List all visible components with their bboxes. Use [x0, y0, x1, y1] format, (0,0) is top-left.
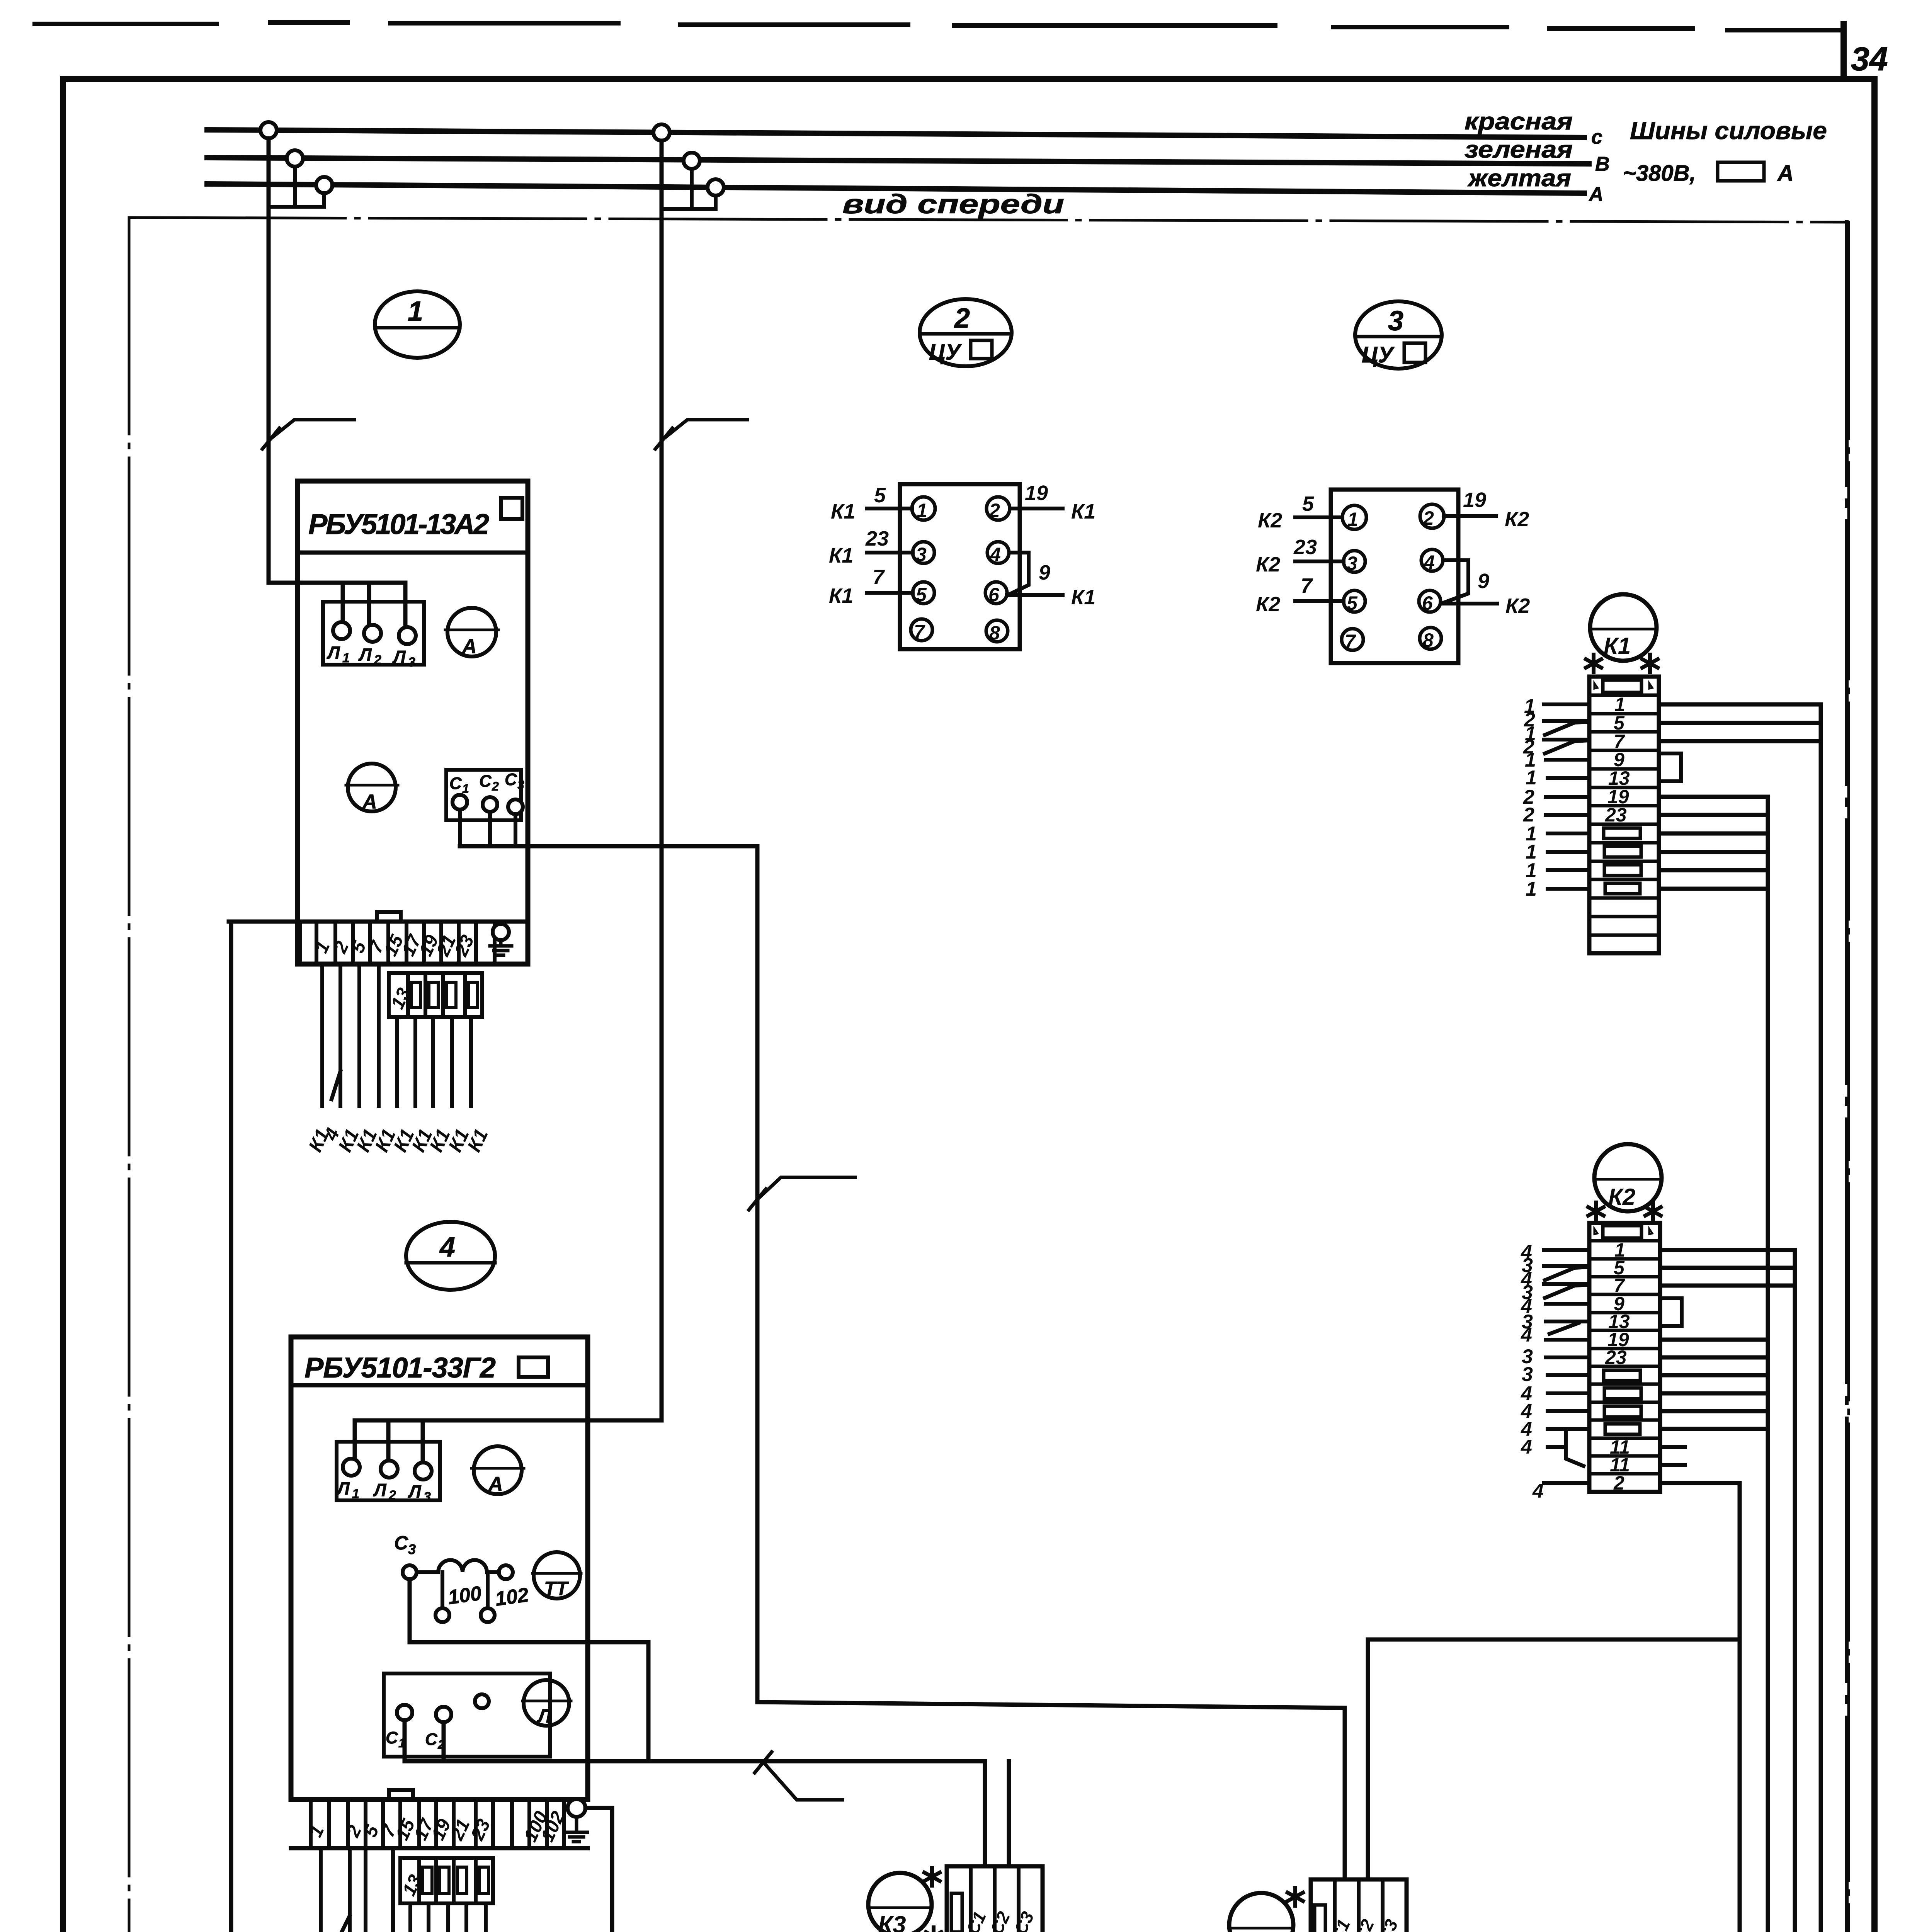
unit U1 РБУ5101-13А2 body	[298, 481, 528, 964]
X3 pin 4	[1421, 549, 1443, 571]
svg-text:1: 1	[408, 296, 423, 327]
svg-text:4: 4	[1424, 551, 1435, 573]
K1 left wires	[1544, 704, 1589, 889]
X3 wire from pin2	[1444, 514, 1496, 518]
U2 terminal C2	[436, 1707, 451, 1722]
U2 indicator rect	[519, 1357, 548, 1377]
svg-text:А: А	[362, 791, 377, 813]
U1 strip tab	[377, 912, 401, 922]
X2 pin 5	[913, 582, 934, 604]
K3 asterisk bottom	[926, 1927, 941, 1932]
U1 indicator square	[501, 498, 522, 519]
bus tap 1: node on bus C	[260, 122, 277, 138]
svg-text:4: 4	[1521, 1324, 1532, 1346]
svg-text:23: 23	[1605, 804, 1627, 826]
svg-text:А: А	[1777, 161, 1794, 186]
K2 asterisk right	[1645, 1202, 1661, 1220]
bus tap 2 bundle wires	[662, 169, 716, 209]
U2 strip tab	[389, 1790, 413, 1799]
svg-text:К3: К3	[878, 1912, 906, 1932]
U1 terminal L3	[399, 627, 416, 644]
svg-text:Л: Л	[537, 1705, 552, 1727]
K1 header plug	[1603, 680, 1641, 692]
svg-text:2: 2	[492, 779, 499, 793]
svg-text:3: 3	[517, 778, 524, 792]
K2 left wire labels	[1521, 1241, 1544, 1502]
boundary long-dash line right	[1845, 222, 1849, 1932]
svg-text:К1: К1	[1604, 633, 1631, 659]
K1 link bracket rows 9-13	[1659, 753, 1681, 781]
U2 terminal strip cells	[311, 1799, 564, 1848]
U1 second terminal row	[389, 973, 482, 1017]
power bus A (yellow phase)	[207, 184, 1584, 193]
svg-text:К1: К1	[1071, 500, 1095, 523]
svg-text:5: 5	[1347, 592, 1358, 614]
svg-text:С: С	[479, 772, 492, 791]
bus tap 1: node on bus B	[287, 150, 303, 167]
svg-text:7: 7	[914, 621, 925, 643]
U2 ground symbol	[566, 1817, 587, 1842]
U2 TT circle	[534, 1552, 580, 1599]
svg-text:c: c	[1591, 126, 1602, 148]
X2 pin 7	[911, 619, 932, 641]
svg-text:К2: К2	[1256, 593, 1280, 616]
U2 terminal strip top line	[291, 1798, 588, 1802]
svg-text:К1: К1	[1071, 586, 1095, 609]
U1 C-terminal box	[446, 770, 521, 820]
svg-text:К1: К1	[829, 544, 853, 567]
svg-text:7: 7	[1301, 574, 1313, 597]
demolition mark on drop 1	[262, 420, 354, 449]
U2 CT primary with coil	[417, 1570, 499, 1574]
svg-text:4: 4	[439, 1232, 455, 1263]
U1 meter A2	[348, 764, 396, 811]
K1 left wire labels	[1523, 695, 1537, 900]
svg-text:К2: К2	[1256, 553, 1280, 576]
svg-text:2: 2	[1423, 507, 1434, 529]
svg-text:А: А	[461, 635, 477, 658]
U2 lamp circle	[524, 1680, 569, 1726]
power bus B (green phase)	[207, 158, 1589, 164]
X3 pin 1	[1342, 505, 1366, 529]
svg-text:3: 3	[408, 655, 415, 670]
svg-text:К1: К1	[831, 500, 855, 523]
U2 ammeter	[474, 1446, 522, 1494]
svg-text:34: 34	[1851, 41, 1888, 78]
U1 ground symbol	[490, 940, 512, 955]
svg-text:зеленая: зеленая	[1465, 136, 1573, 163]
svg-text:С: С	[394, 1532, 408, 1554]
X3 wire from pin6	[1441, 602, 1497, 605]
U2 strip row labels	[305, 1808, 569, 1845]
U2 strip bottom line	[291, 1846, 588, 1850]
svg-text:2: 2	[954, 303, 970, 334]
page number divider line top right	[1840, 24, 1847, 79]
U2 L-terminal box	[337, 1442, 440, 1500]
inner panel boundary (chain line)	[129, 218, 1849, 1932]
svg-text:1: 1	[352, 1486, 359, 1501]
U1 terminal L1	[333, 622, 350, 639]
wire: U2 ground to zero bus	[585, 1808, 612, 1932]
K2 left wires	[1544, 1250, 1589, 1483]
terminal block K1 callout circle	[1590, 594, 1657, 661]
wire: U1 left feeder to zero bus	[231, 922, 298, 1932]
callout circle 3	[1355, 301, 1442, 369]
U2 outgoing wires below strip	[321, 1848, 486, 1932]
X2 wire to pin1	[867, 507, 912, 510]
bus tap 2: node on bus A	[708, 179, 724, 196]
svg-text:6: 6	[988, 584, 1000, 605]
U1 terminal C1	[452, 795, 467, 810]
svg-text:6: 6	[1422, 592, 1433, 614]
ampere box symbol	[1718, 162, 1764, 181]
wire: K1 lower bundle to relay panel	[1573, 797, 1768, 1932]
U2 jumper plugs row2	[423, 1867, 432, 1893]
U1 outgoing wires below strip	[322, 964, 471, 1106]
K1 asterisk right	[1642, 655, 1658, 672]
U2 second terminal row	[400, 1858, 493, 1903]
demolition mark on U1-C wire	[749, 1177, 855, 1210]
U1 ground circle	[493, 924, 509, 940]
U2 spare hole	[475, 1694, 489, 1708]
svg-text:Л: Л	[408, 1481, 422, 1502]
svg-text:3: 3	[1347, 553, 1357, 574]
K2 link bracket rows 9-13	[1660, 1298, 1682, 1326]
K4 asterisk top	[1288, 1888, 1303, 1906]
U2 C1C2 box	[384, 1673, 550, 1757]
svg-text:Л: Л	[336, 1478, 350, 1498]
wire: K2 lower bundle joining relay-panel feeder	[1660, 1340, 1768, 1429]
U2 title divider	[291, 1383, 588, 1388]
U2 terminal L1	[343, 1459, 360, 1476]
power bus C (red phase)	[207, 130, 1584, 138]
svg-text:С: С	[449, 774, 462, 793]
svg-text:Л: Л	[358, 645, 372, 665]
svg-text:2: 2	[989, 500, 1000, 521]
svg-text:А: А	[1588, 183, 1604, 206]
K4 cell labels	[1326, 1916, 1402, 1932]
svg-text:ЦУ: ЦУ	[1362, 342, 1395, 367]
X3 pin 8	[1420, 628, 1441, 649]
K1 row labels	[1605, 694, 1630, 826]
svg-text:7: 7	[873, 566, 885, 589]
K3 asterisk top	[924, 1868, 940, 1886]
svg-text:5: 5	[874, 484, 886, 507]
X3 pin 7	[1342, 629, 1363, 650]
K2 terminal strip body	[1589, 1223, 1660, 1492]
svg-text:К2: К2	[1258, 509, 1282, 532]
svg-text:ЦУ: ЦУ	[929, 340, 962, 365]
svg-text:красная: красная	[1465, 108, 1573, 135]
X3 wire to pin5	[1295, 599, 1344, 603]
svg-text:3: 3	[916, 544, 927, 565]
K2 rows 11 stubs	[1660, 1447, 1685, 1465]
X2 pin 1	[912, 497, 935, 520]
motor starter K4 callout circle	[1229, 1893, 1293, 1932]
wire: drop 1 from bus C to unit 1	[267, 138, 271, 583]
svg-text:23: 23	[1605, 1347, 1627, 1368]
svg-text:А: А	[488, 1473, 503, 1495]
callout circle 1	[375, 291, 460, 358]
svg-text:3: 3	[1388, 306, 1403, 337]
svg-text:8: 8	[989, 622, 1000, 644]
K3 terminal strip	[947, 1866, 1043, 1932]
svg-text:вид спереди: вид спереди	[842, 189, 1064, 219]
svg-text:К2: К2	[1608, 1184, 1635, 1210]
wire: K2 row 2 to zero bus junction	[1490, 1483, 1740, 1932]
K3 plug in cell 1	[951, 1893, 962, 1932]
X2 pin 2	[987, 497, 1010, 520]
X2 pin 4	[987, 542, 1009, 563]
U1 jumper plugs row2	[411, 982, 420, 1008]
svg-text:23: 23	[865, 527, 889, 550]
U2 ground circle	[568, 1799, 585, 1817]
U1 title divider	[298, 551, 528, 555]
X2 wire from pin2	[1010, 507, 1063, 510]
bus tap 1 bundle wires	[269, 167, 324, 207]
wire: drop 2 from bus C to unit 4	[660, 141, 664, 1420]
connector X2 body	[900, 484, 1020, 649]
svg-text:1: 1	[462, 782, 469, 796]
wire: K1 rows 1-5-7 bundle to connection box 2	[1659, 704, 1821, 1932]
X2 wire to pin3	[867, 551, 913, 554]
bus tap 1: node on bus A	[316, 177, 332, 193]
K2 row labels	[1605, 1239, 1630, 1494]
svg-text:С: С	[386, 1728, 398, 1747]
U1 terminal C3	[508, 799, 523, 814]
X3 pin 5	[1344, 590, 1365, 612]
svg-text:9: 9	[1478, 570, 1489, 593]
U2 CT secondary taps	[442, 1572, 488, 1608]
svg-text:Л: Л	[392, 647, 406, 667]
svg-text:100: 100	[447, 1582, 483, 1609]
svg-text:Л: Л	[373, 1480, 387, 1500]
svg-text:23: 23	[1293, 536, 1317, 559]
X3 wire to pin3	[1295, 560, 1344, 563]
svg-text:102: 102	[494, 1583, 530, 1611]
X2 pin 3	[913, 542, 934, 563]
K2 header plug	[1603, 1226, 1641, 1238]
U1 terminal strip top line	[229, 920, 528, 924]
K4 plug in cell 1	[1315, 1905, 1325, 1932]
U1 input bracket wire	[269, 583, 405, 627]
U1 terminal C2	[483, 797, 497, 812]
X2 pin 8	[986, 620, 1008, 642]
svg-text:РБУ5101-33Г2: РБУ5101-33Г2	[304, 1352, 496, 1384]
wire: U2 C1 C2 to K3	[405, 1720, 1009, 1866]
motor starter K3 callout circle	[868, 1873, 932, 1932]
svg-text:5: 5	[1302, 492, 1314, 515]
demolition mark on drop 2	[655, 420, 747, 449]
U1 wire labels K1	[304, 1125, 492, 1155]
svg-text:2: 2	[388, 1488, 396, 1503]
svg-text:1: 1	[1347, 509, 1358, 530]
X3 pin 6	[1419, 590, 1441, 612]
svg-text:1: 1	[917, 500, 927, 521]
svg-text:1: 1	[1526, 878, 1537, 900]
svg-text:РБУ5101-13А2: РБУ5101-13А2	[308, 508, 489, 540]
U1 L-terminal box	[323, 602, 424, 665]
demolition mark on C1C2 wire	[755, 1752, 842, 1800]
svg-text:С: С	[425, 1730, 438, 1749]
U1 ground stub	[499, 922, 503, 924]
U1 strip row labels	[311, 931, 478, 960]
svg-text:19: 19	[1025, 481, 1048, 505]
svg-text:9: 9	[1039, 561, 1050, 584]
wire: K2 rows 1-5-7 bundle to connection box 1	[1658, 1250, 1795, 1932]
U2 terminal C1	[397, 1705, 412, 1720]
svg-text:С: С	[505, 770, 517, 789]
U1 terminal strip cells	[300, 922, 495, 964]
U2 input bracket wire	[355, 1420, 662, 1463]
bus tap 2: node on bus B	[684, 153, 700, 169]
terminal block K2 callout circle	[1594, 1144, 1662, 1211]
U2 terminal L3	[415, 1463, 432, 1480]
svg-text:~380В,: ~380В,	[1623, 161, 1696, 186]
wire: U2 CT to K3 feeder	[410, 1579, 648, 1761]
svg-text:7: 7	[1345, 631, 1356, 652]
top dashed sheet separator	[35, 22, 1839, 30]
callout circle 4	[406, 1222, 495, 1290]
X3 pin 2	[1420, 504, 1444, 528]
svg-text:4: 4	[1532, 1480, 1544, 1502]
svg-text:3: 3	[408, 1541, 416, 1557]
K1 jumper plugs	[1604, 828, 1640, 838]
svg-text:2: 2	[374, 653, 381, 667]
wire: U1 C bus to K4	[460, 846, 1345, 1879]
X2 jumper pin4 to pin6	[1008, 553, 1029, 595]
svg-text:1: 1	[342, 651, 350, 665]
X2 wire to pin5	[867, 591, 913, 595]
svg-text:В: В	[1595, 153, 1610, 175]
K4 terminal strip	[1311, 1879, 1407, 1932]
svg-text:К1: К1	[829, 584, 853, 607]
callout circle 2	[920, 299, 1012, 366]
wire: branch to K4	[1368, 1639, 1740, 1879]
wire: U1 C outputs down	[460, 810, 515, 846]
U1 terminal L2	[364, 625, 381, 642]
svg-text:желтая: желтая	[1467, 165, 1571, 192]
K2 asterisk left	[1588, 1202, 1604, 1220]
U2 terminal L2	[381, 1461, 398, 1478]
svg-text:К2: К2	[1505, 508, 1529, 531]
K3 cell labels	[962, 1908, 1038, 1932]
svg-text:4: 4	[1521, 1436, 1532, 1458]
U1 ammeter A1	[447, 608, 496, 656]
svg-text:Л: Л	[327, 643, 340, 663]
svg-text:19: 19	[1463, 488, 1486, 512]
unit U2 РБУ5101-33Г2 body	[291, 1337, 588, 1799]
X3 wire to pin1	[1295, 515, 1342, 519]
svg-text:ТТ: ТТ	[544, 1578, 570, 1599]
svg-text:8: 8	[1423, 629, 1434, 651]
X2 wire from pin6	[1007, 593, 1063, 597]
K2 jumper plugs	[1604, 1370, 1640, 1381]
svg-text:5: 5	[916, 584, 927, 605]
svg-text:4: 4	[990, 544, 1001, 565]
svg-text:3: 3	[424, 1490, 431, 1504]
X3 pin 3	[1344, 551, 1365, 572]
connector X3 body	[1331, 490, 1458, 663]
bus tap 2: node on bus C	[653, 124, 670, 141]
K1 asterisk left	[1586, 655, 1601, 672]
K1 terminal strip body	[1589, 677, 1659, 953]
X2 pin 6	[985, 582, 1007, 604]
svg-text:2: 2	[1613, 1472, 1624, 1494]
X3 jumper pin4 to pin6	[1441, 560, 1468, 604]
svg-text:К2: К2	[1505, 594, 1530, 617]
svg-text:Шины силовые: Шины силовые	[1630, 117, 1827, 145]
